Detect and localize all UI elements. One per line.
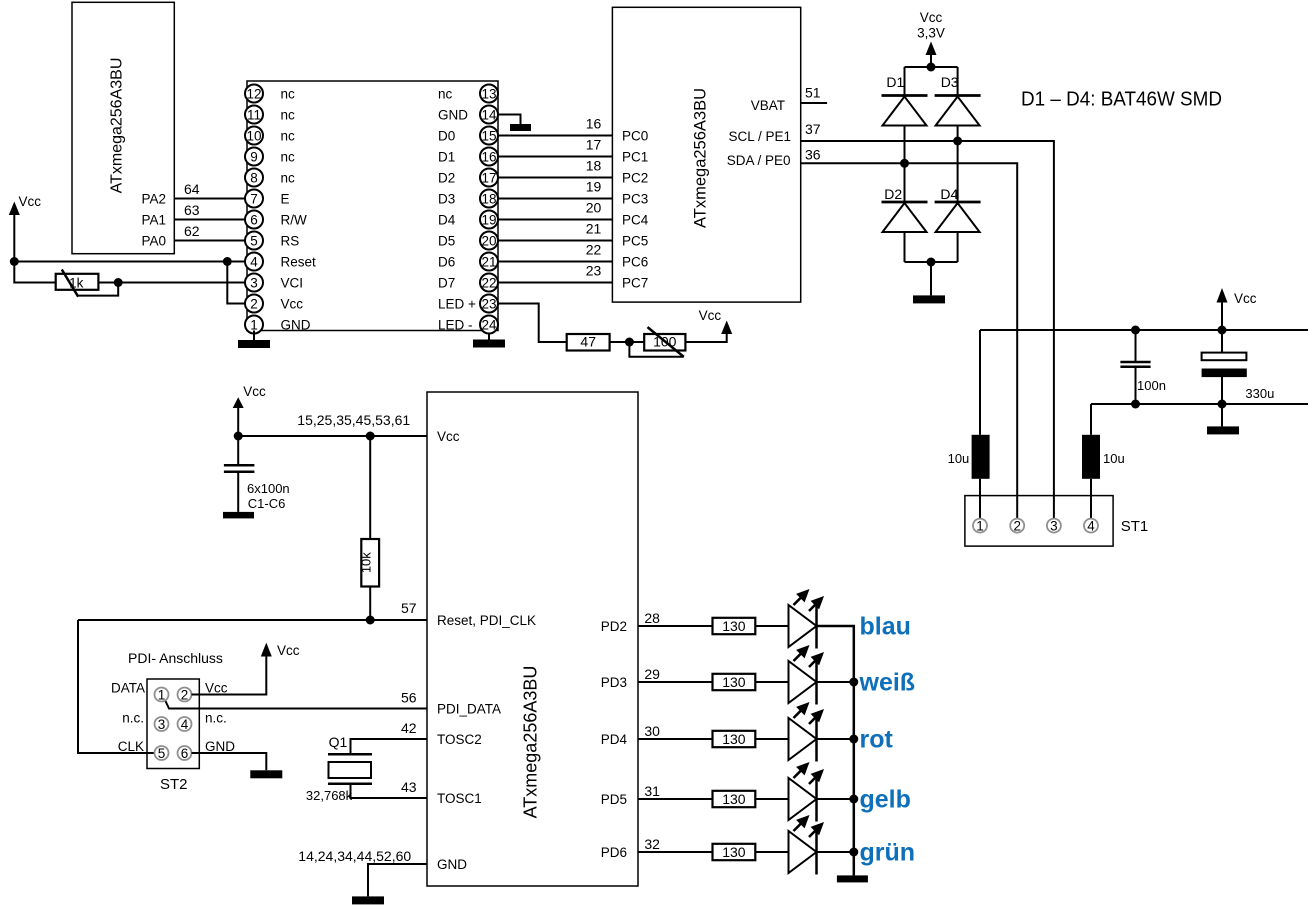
wire PA2 to pin7 E <box>174 198 245 200</box>
ground symbol C1-C6 <box>223 512 254 519</box>
diode D1 <box>882 96 928 126</box>
wire D1 to PC1 <box>498 156 612 158</box>
svg-text:blau: blau <box>860 613 911 641</box>
svg-text:LED -: LED - <box>438 318 473 333</box>
svg-text:PD3: PD3 <box>601 675 627 690</box>
svg-text:D6: D6 <box>438 255 455 270</box>
capacitor C 100n <box>1120 330 1150 404</box>
svg-text:16: 16 <box>481 149 496 164</box>
svg-text:47: 47 <box>580 334 596 350</box>
svg-text:42: 42 <box>401 720 417 736</box>
svg-text:23: 23 <box>586 263 602 279</box>
junction 1k wiper <box>114 278 123 287</box>
connector pin 14 circle <box>480 106 498 124</box>
svg-text:Vcc: Vcc <box>1234 291 1257 306</box>
wire LED+ from pin23 <box>498 304 567 343</box>
svg-text:2: 2 <box>181 687 189 702</box>
svg-text:PC4: PC4 <box>622 213 649 228</box>
svg-text:12: 12 <box>246 86 261 101</box>
connector pin 8 circle <box>245 169 263 187</box>
junction bus gr&#252;n <box>849 848 858 857</box>
svg-text:GND: GND <box>437 857 467 872</box>
svg-text:PC0: PC0 <box>622 129 648 144</box>
svg-text:nc: nc <box>281 108 296 123</box>
connector ST2 pin 1 <box>155 688 169 702</box>
resistor R 1k (trimmer) <box>56 274 99 290</box>
trimmer 1k diagonal stroke <box>62 270 78 297</box>
wire resistor to LED (wei&#223;) <box>755 681 788 683</box>
svg-text:ST1: ST1 <box>1121 518 1149 535</box>
vcc symbol above C1-C6 <box>233 397 244 436</box>
wire 10u left to ST1 pin1 <box>979 479 981 520</box>
svg-text:130: 130 <box>722 731 746 747</box>
svg-text:10u: 10u <box>1103 451 1125 466</box>
svg-text:Vcc: Vcc <box>699 308 722 323</box>
wire blau to bus <box>817 626 854 852</box>
svg-text:30: 30 <box>644 723 660 739</box>
junction bus gelb <box>849 795 858 804</box>
connector pin 17 circle <box>480 169 498 187</box>
wire resistor to LED (rot) <box>755 738 788 740</box>
svg-text:22: 22 <box>586 242 602 258</box>
connector pin 1 circle <box>245 316 263 334</box>
connector pin 9 circle <box>245 148 263 166</box>
junction LED+ divider <box>625 338 634 347</box>
svg-text:36: 36 <box>805 147 821 163</box>
wire ST2 gnd <box>192 753 267 770</box>
svg-text:64: 64 <box>184 181 200 197</box>
connector pin 6 circle <box>245 211 263 229</box>
wire D4 to PC4 <box>498 219 612 221</box>
wire to diode ground <box>930 262 932 295</box>
ground symbol ST2 <box>250 770 282 778</box>
svg-text:63: 63 <box>184 202 200 218</box>
svg-text:ST2: ST2 <box>160 776 188 793</box>
svg-text:17: 17 <box>481 170 496 185</box>
svg-text:43: 43 <box>401 779 417 795</box>
ground symbol 330u <box>1207 426 1239 434</box>
wire rot to bus <box>817 738 854 740</box>
svg-text:3: 3 <box>1050 518 1058 533</box>
trimmer 1k wiper wire <box>78 283 118 296</box>
connector ST2 body <box>147 679 199 769</box>
connector pin 4 circle <box>245 253 263 271</box>
capacitor C 330u electrolytic <box>1202 330 1247 426</box>
wire resistor to LED (blau) <box>755 625 788 627</box>
resistor R 47 <box>567 334 610 351</box>
wire SCL net to ST1 pin3 <box>801 141 1054 519</box>
svg-text:R/W: R/W <box>281 213 308 228</box>
svg-text:CLK: CLK <box>118 739 144 754</box>
resistor R 100 (trimmer) <box>644 334 685 351</box>
svg-text:nc: nc <box>281 150 296 165</box>
wire vcc to pin4 Reset <box>14 261 245 263</box>
connector ST1 pin 3 <box>1047 519 1061 533</box>
svg-text:20: 20 <box>481 233 496 248</box>
ground symbol under connector pin1 <box>238 331 270 349</box>
wire gnd rail to 10u right <box>1090 404 1092 435</box>
resistor R 130 (rot) <box>713 731 756 747</box>
ic U3 ATxmega256A3BU (main) <box>427 392 638 886</box>
connector pin 24 circle <box>480 316 498 334</box>
svg-text:1: 1 <box>250 317 258 332</box>
wire diode top rail <box>905 66 958 68</box>
svg-text:3: 3 <box>250 275 258 290</box>
svg-text:PA1: PA1 <box>141 213 166 228</box>
ic U1 ATxmega256A3BU (port A segment) <box>72 2 174 253</box>
svg-text:Vcc: Vcc <box>19 194 42 209</box>
svg-text:Vcc: Vcc <box>920 10 943 25</box>
svg-text:13: 13 <box>481 86 496 101</box>
svg-text:11: 11 <box>247 107 261 122</box>
svg-text:n.c.: n.c. <box>205 710 227 725</box>
svg-text:51: 51 <box>805 85 821 101</box>
LED D blau <box>789 589 825 649</box>
wire 100 to vcc <box>685 332 726 342</box>
connector pin 11 circle <box>245 106 263 124</box>
svg-text:130: 130 <box>722 618 746 634</box>
connector pin 10 circle <box>245 127 263 145</box>
connector pin 13 circle <box>480 85 498 103</box>
svg-text:E: E <box>281 192 290 207</box>
wire 47 to junction <box>610 341 630 343</box>
svg-text:PA2: PA2 <box>141 192 166 207</box>
resistor R 10k pullup <box>361 539 379 587</box>
svg-text:D1: D1 <box>886 74 904 90</box>
svg-text:15: 15 <box>481 128 496 143</box>
capacitor C 10u right (tantalum) <box>1082 435 1100 479</box>
junction diode bottom rail <box>927 258 936 267</box>
junction vcc rail at 100n <box>1131 326 1140 335</box>
svg-text:9: 9 <box>250 149 258 164</box>
wire D7 to PC7 <box>498 282 612 284</box>
svg-text:PD6: PD6 <box>601 845 627 860</box>
svg-text:SDA / PE0: SDA / PE0 <box>727 153 791 168</box>
vcc symbol top-left <box>9 202 20 262</box>
svg-text:D2: D2 <box>884 186 902 202</box>
svg-text:22: 22 <box>481 275 496 290</box>
svg-text:DATA: DATA <box>111 681 145 696</box>
svg-text:D5: D5 <box>438 234 455 249</box>
resistor R 130 (gr&#252;n) <box>713 844 756 860</box>
svg-text:5: 5 <box>250 233 258 248</box>
connector ST1 body <box>965 496 1113 546</box>
wire vcc rail to 10u left <box>979 330 981 435</box>
svg-text:PD4: PD4 <box>601 732 628 747</box>
svg-text:3,3V: 3,3V <box>917 26 945 41</box>
wire D2 column lower <box>904 232 906 262</box>
svg-text:Vcc: Vcc <box>205 681 228 696</box>
connector ST2 pin 2 <box>178 688 192 702</box>
svg-text:6: 6 <box>181 746 189 761</box>
svg-text:17: 17 <box>586 137 602 153</box>
svg-text:3: 3 <box>158 717 166 732</box>
wire D3 column upper <box>957 67 959 96</box>
svg-text:Vcc: Vcc <box>243 384 266 399</box>
svg-text:grün: grün <box>860 839 916 867</box>
connector pin 7 circle <box>245 190 263 208</box>
LED D wei&#223; <box>789 645 825 705</box>
junction reset at 10k <box>366 616 375 625</box>
svg-text:D3: D3 <box>941 74 959 90</box>
wire 10k lower <box>369 587 371 621</box>
svg-text:10: 10 <box>246 128 261 143</box>
svg-text:PC3: PC3 <box>622 192 648 207</box>
svg-text:D1: D1 <box>438 150 455 165</box>
connector ST1 pin 2 <box>1010 519 1024 533</box>
svg-text:23: 23 <box>481 296 496 311</box>
wire gnd rail <box>1091 403 1308 405</box>
wire D1 to SDA junction <box>904 126 906 203</box>
svg-text:37: 37 <box>805 121 821 137</box>
wire D6 to PC6 <box>498 261 612 263</box>
connector ST1 pin 1 <box>973 519 987 533</box>
svg-text:14: 14 <box>481 107 497 122</box>
svg-text:PDI- Anschluss: PDI- Anschluss <box>128 650 223 666</box>
svg-text:7: 7 <box>250 191 258 206</box>
svg-text:TOSC2: TOSC2 <box>437 732 482 747</box>
vcc symbol 3.3V <box>926 42 937 68</box>
svg-text:Q1: Q1 <box>329 734 348 750</box>
svg-text:4: 4 <box>1087 518 1095 533</box>
svg-text:GND: GND <box>281 318 311 333</box>
svg-text:PC2: PC2 <box>622 171 648 186</box>
connector ST2 pin 3 <box>155 717 169 731</box>
svg-text:PC7: PC7 <box>622 276 648 291</box>
vcc symbol ST2 <box>261 643 272 657</box>
LED D rot <box>789 702 825 762</box>
diode D4 <box>935 202 981 232</box>
wire gelb to bus <box>817 798 854 800</box>
svg-text:RS: RS <box>281 234 300 249</box>
svg-text:10k: 10k <box>358 552 373 573</box>
connector ST2 pin 5 <box>155 746 169 760</box>
svg-text:56: 56 <box>401 690 417 706</box>
wire D3 to PC3 <box>498 198 612 200</box>
wire reset net <box>78 619 427 621</box>
svg-text:PC5: PC5 <box>622 234 648 249</box>
connector pin 18 circle <box>480 190 498 208</box>
svg-text:nc: nc <box>438 87 453 102</box>
svg-text:SCL / PE1: SCL / PE1 <box>728 129 791 144</box>
svg-text:rot: rot <box>860 726 894 754</box>
connector pin 20 circle <box>480 232 498 250</box>
capacitor C1-C6 6x100n <box>224 436 255 512</box>
wire D4 column lower <box>957 232 959 262</box>
connector pin 5 circle <box>245 232 263 250</box>
svg-text:weiß: weiß <box>859 669 916 697</box>
svg-text:15,25,35,45,53,61: 15,25,35,45,53,61 <box>297 412 410 428</box>
svg-text:2: 2 <box>1013 518 1021 533</box>
wire wei&#223; to bus <box>817 681 854 683</box>
svg-text:PC6: PC6 <box>622 255 648 270</box>
svg-text:VBAT: VBAT <box>751 98 785 113</box>
wire PA0 to pin5 RS <box>174 240 245 242</box>
ground symbol LED bus <box>837 875 868 882</box>
svg-text:1: 1 <box>976 518 984 533</box>
trimmer 100 diagonal stroke <box>648 327 684 357</box>
ic U2 ATxmega256A3BU (I2C segment) <box>612 7 800 302</box>
svg-text:29: 29 <box>644 666 660 682</box>
svg-text:GND: GND <box>205 739 235 754</box>
wire resistor to LED (gelb) <box>755 798 788 800</box>
svg-text:ATxmega256A3BU: ATxmega256A3BU <box>109 58 126 194</box>
svg-text:TOSC1: TOSC1 <box>437 791 482 806</box>
wire 1k to pin3 VCI <box>98 282 245 284</box>
junction SDA at D1/D2 <box>900 159 909 168</box>
svg-text:nc: nc <box>281 129 296 144</box>
wire D3 to SCL junction <box>957 126 959 203</box>
svg-text:4: 4 <box>181 717 189 732</box>
wire vcc pin of U3 <box>238 435 427 437</box>
wire bus to ground <box>853 852 856 875</box>
svg-text:28: 28 <box>644 610 660 626</box>
connector pin 12 circle <box>245 85 263 103</box>
connector ST1 pin 4 <box>1084 519 1098 533</box>
svg-text:D0: D0 <box>438 129 455 144</box>
vcc symbol right rail <box>1217 288 1228 330</box>
svg-text:PD2: PD2 <box>601 619 627 634</box>
svg-text:19: 19 <box>586 179 602 195</box>
svg-text:Reset, PDI_CLK: Reset, PDI_CLK <box>437 613 536 628</box>
svg-text:130: 130 <box>722 844 746 860</box>
svg-text:32: 32 <box>644 836 660 852</box>
svg-text:24: 24 <box>481 317 497 332</box>
connector pin 16 circle <box>480 148 498 166</box>
junction bus wei&#223; <box>849 678 858 687</box>
wire PD6 to resistor <box>638 851 713 853</box>
svg-text:21: 21 <box>586 221 602 237</box>
wire pin14 GND <box>498 115 521 125</box>
svg-text:GND: GND <box>438 108 468 123</box>
svg-text:nc: nc <box>281 171 296 186</box>
svg-text:VCI: VCI <box>281 276 304 291</box>
junction vcc at cap <box>234 432 243 441</box>
junction on reset wire left <box>10 257 19 266</box>
svg-text:6: 6 <box>250 212 258 227</box>
crystal Q1 <box>328 754 372 784</box>
svg-text:gelb: gelb <box>860 786 911 814</box>
svg-text:PC1: PC1 <box>622 150 648 165</box>
wire PD2 to resistor <box>638 625 713 627</box>
svg-text:D4: D4 <box>940 186 958 202</box>
svg-text:ATxmega256A3BU: ATxmega256A3BU <box>692 88 710 228</box>
connector ST2 pin 6 <box>178 746 192 760</box>
svg-text:5: 5 <box>158 746 166 761</box>
junction vcc rail at 330u <box>1218 326 1227 335</box>
wire branch to pin2 Vcc <box>227 262 245 304</box>
svg-text:LED +: LED + <box>438 297 476 312</box>
svg-text:32,768k: 32,768k <box>306 788 353 803</box>
svg-text:Vcc: Vcc <box>437 429 460 444</box>
wire diode bottom rail <box>905 261 958 263</box>
connector pin 23 circle <box>480 295 498 313</box>
wire gr&#252;n to bus <box>817 851 854 853</box>
svg-text:1: 1 <box>158 687 166 702</box>
wire PA1 to pin6 R/W <box>174 219 245 221</box>
junction bus rot <box>849 735 858 744</box>
svg-text:Reset: Reset <box>281 255 317 270</box>
svg-text:PDI_DATA: PDI_DATA <box>437 702 501 717</box>
wire TOSC1 net <box>351 785 428 798</box>
svg-text:62: 62 <box>184 223 200 239</box>
svg-text:4: 4 <box>250 254 258 269</box>
stub VBAT pin 51 <box>801 102 827 104</box>
capacitor C 10u left (tantalum) <box>972 435 990 479</box>
wire D0 to PC0 <box>498 135 612 137</box>
svg-text:19: 19 <box>481 212 496 227</box>
wire resistor to LED (gr&#252;n) <box>755 851 788 853</box>
svg-text:330u: 330u <box>1245 386 1274 401</box>
wire gnd pin of U3 <box>368 864 427 896</box>
ground symbol under connector pin24 <box>473 334 505 348</box>
junction diode top rail <box>927 63 936 72</box>
svg-text:PA0: PA0 <box>141 234 166 249</box>
connector J1 LCD body <box>247 81 498 331</box>
connector ST2 pin 4 <box>178 717 192 731</box>
svg-text:6x100n: 6x100n <box>247 481 290 496</box>
diode D3 <box>935 96 981 126</box>
trimmer 100 wiper wire <box>629 342 683 357</box>
connector pin 22 circle <box>480 274 498 292</box>
wire TOSC2 net <box>351 739 428 753</box>
connector pin 3 circle <box>245 274 263 292</box>
svg-text:Vcc: Vcc <box>281 297 304 312</box>
connector pin 2 circle <box>245 295 263 313</box>
svg-text:10u: 10u <box>948 451 970 466</box>
junction vcc at 10k <box>366 432 375 441</box>
wire D5 to PC5 <box>498 240 612 242</box>
svg-text:2: 2 <box>250 296 258 311</box>
svg-text:ATxmega256A3BU: ATxmega256A3BU <box>521 666 541 819</box>
resistor R 130 (wei&#223;) <box>713 674 756 690</box>
ground symbol pin14 <box>510 124 531 131</box>
wire SDA net to ST1 pin2 <box>801 163 1018 519</box>
svg-text:21: 21 <box>481 254 496 269</box>
svg-text:n.c.: n.c. <box>122 710 144 725</box>
vcc symbol backlight <box>721 321 732 335</box>
svg-text:D3: D3 <box>438 192 455 207</box>
svg-text:nc: nc <box>281 87 296 102</box>
wire 10u right to ST1 pin4 <box>1090 479 1092 520</box>
svg-text:PD5: PD5 <box>601 792 627 807</box>
svg-text:18: 18 <box>586 158 602 174</box>
svg-text:C1-C6: C1-C6 <box>248 496 286 511</box>
wire 10k upper <box>369 436 371 539</box>
ground symbol diode block <box>913 295 945 303</box>
svg-text:8: 8 <box>250 170 258 185</box>
wire D2 to PC2 <box>498 177 612 179</box>
wire junction to R100 <box>629 341 644 343</box>
svg-text:100n: 100n <box>1137 378 1166 393</box>
svg-text:14,24,34,44,52,60: 14,24,34,44,52,60 <box>298 848 411 864</box>
wire D1 column upper <box>904 67 906 96</box>
svg-text:18: 18 <box>481 191 496 206</box>
wire pdi_data net <box>165 700 427 709</box>
svg-text:31: 31 <box>644 783 660 799</box>
svg-text:Vcc: Vcc <box>277 643 300 658</box>
svg-text:D7: D7 <box>438 276 455 291</box>
resistor R 130 (gelb) <box>713 791 756 807</box>
wire vcc down to R 1k <box>14 262 55 283</box>
LED D gelb <box>789 762 825 822</box>
svg-text:20: 20 <box>586 200 602 216</box>
junction SCL at D3/D4 <box>953 137 962 146</box>
connector pin 21 circle <box>480 253 498 271</box>
ground symbol U3 <box>352 896 384 904</box>
resistor R 130 (blau) <box>713 618 756 634</box>
svg-text:D4: D4 <box>438 213 456 228</box>
